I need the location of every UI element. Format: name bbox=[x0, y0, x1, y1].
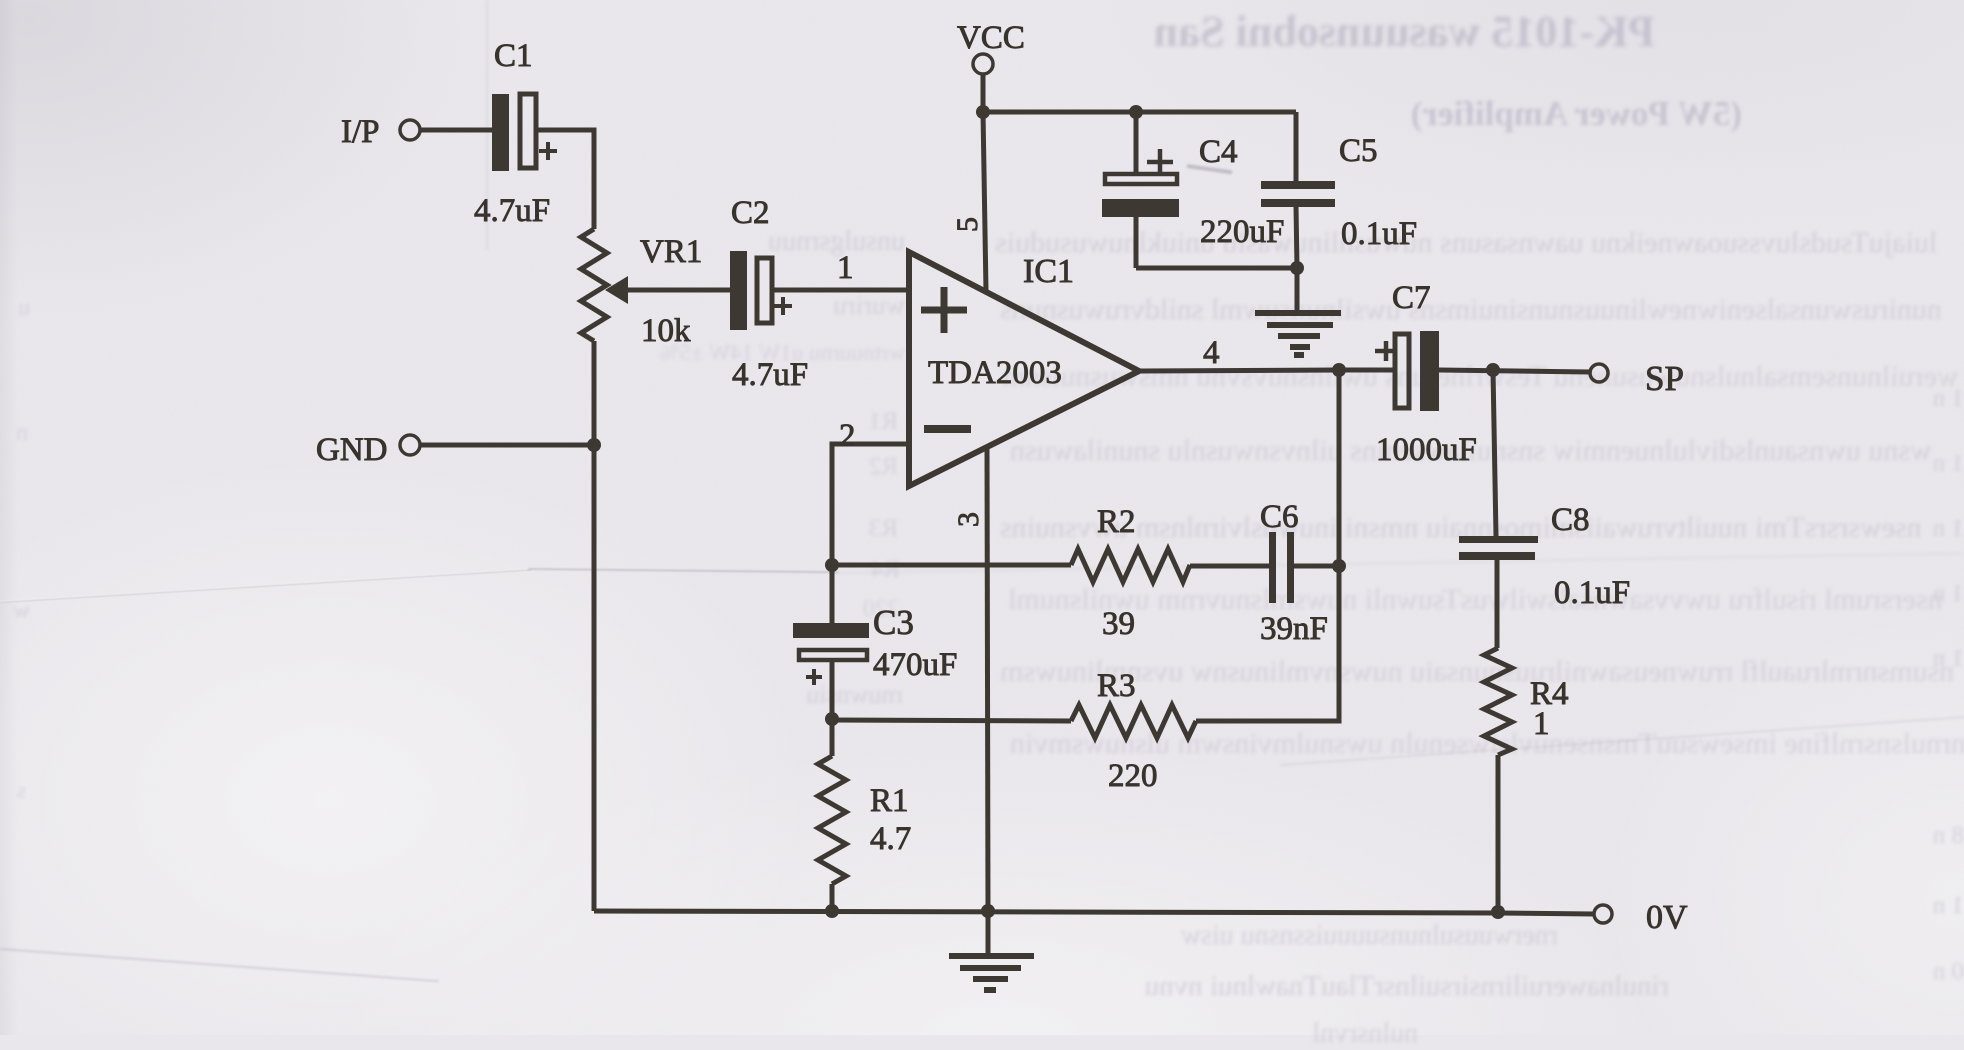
potentiometer VR1 bbox=[581, 229, 607, 341]
resistor R4 bbox=[1484, 648, 1512, 755]
junction C5 bottom bbox=[1290, 261, 1304, 275]
crease bottom left bbox=[0, 948, 439, 982]
wire C6 to output branch bbox=[1294, 564, 1339, 569]
wire to ground symbol under C5 bbox=[1295, 268, 1300, 311]
svg-text:R3: R3 bbox=[1097, 668, 1136, 704]
svg-text:IC1: IC1 bbox=[1023, 253, 1074, 290]
svg-text:VCC: VCC bbox=[957, 20, 1025, 56]
paper crease left-middle bbox=[0, 569, 531, 603]
wire GND lead bbox=[420, 443, 594, 448]
terminal GND bbox=[400, 435, 420, 455]
label C8 bbox=[1551, 502, 1590, 538]
label C1 bbox=[494, 38, 533, 74]
pin 4 bbox=[1203, 335, 1220, 371]
terminal SP bbox=[1590, 364, 1608, 382]
wire R2 to C6 bbox=[1190, 564, 1269, 569]
label R1 bbox=[870, 783, 909, 819]
svg-text:470uF: 470uF bbox=[873, 647, 957, 683]
net 0V bbox=[1646, 899, 1688, 936]
svg-text:220: 220 bbox=[1108, 758, 1158, 794]
svg-text:2: 2 bbox=[839, 418, 856, 454]
resistor R1 bbox=[818, 756, 846, 884]
junction VCC rail bbox=[976, 105, 990, 119]
svg-text:4.7uF: 4.7uF bbox=[474, 193, 550, 229]
capacitor C1 bbox=[492, 94, 557, 171]
resistor R2 bbox=[1071, 549, 1190, 582]
svg-text:1: 1 bbox=[837, 250, 854, 286]
bleed left edge bits bbox=[0, 295, 30, 322]
op-amp inverting - mark bbox=[924, 425, 971, 433]
wire pin 5 bbox=[983, 112, 986, 291]
wire VCC drop bbox=[981, 74, 986, 112]
net SP bbox=[1645, 359, 1684, 398]
pin 5 (rotated) bbox=[951, 217, 984, 232]
svg-text:220uF: 220uF bbox=[1200, 214, 1284, 250]
value 0.1uF (C5) bbox=[1341, 216, 1417, 252]
junction output / C8 branch bbox=[1486, 363, 1500, 377]
wire C4/C5 bottom rail bbox=[1136, 266, 1297, 271]
junction C6 / output branch bbox=[1332, 559, 1346, 573]
wire C7 to SP bbox=[1439, 370, 1590, 372]
wire output branch down to C8 bbox=[1493, 370, 1496, 536]
bleed left column (parts table, mirrored) bbox=[700, 226, 905, 258]
svg-text:4: 4 bbox=[1203, 335, 1220, 371]
svg-text:39nF: 39nF bbox=[1260, 611, 1328, 647]
svg-text:R1: R1 bbox=[870, 783, 909, 819]
label C2 bbox=[731, 195, 770, 231]
bleed paragraph lines, right half bbox=[995, 226, 1937, 260]
ground symbol bottom bbox=[949, 956, 1034, 990]
svg-text:C7: C7 bbox=[1392, 280, 1431, 316]
bleed bottom lines bbox=[993, 920, 1558, 952]
value 220 (R3) bbox=[1108, 758, 1158, 794]
svg-text:C2: C2 bbox=[731, 195, 770, 231]
value 1 (R4) bbox=[1533, 706, 1550, 742]
svg-text:C1: C1 bbox=[494, 38, 533, 74]
wire R3 left lead bbox=[832, 720, 1071, 721]
junction R1 bottom on ground rail bbox=[825, 904, 839, 918]
pin 3 (rotated) bbox=[952, 512, 985, 527]
wire C5 bottom stub bbox=[1296, 206, 1297, 268]
svg-text:4.7: 4.7 bbox=[870, 821, 911, 857]
small wrinkle top right bbox=[1186, 164, 1232, 174]
wire VR1 bottom down left rail bbox=[592, 341, 597, 911]
value 1000uF (C7) bbox=[1376, 432, 1477, 468]
svg-text:GND: GND bbox=[316, 432, 388, 468]
svg-text:3: 3 bbox=[952, 512, 985, 527]
wire C5 top stub bbox=[1294, 112, 1299, 181]
wire top supply rail bbox=[983, 110, 1296, 115]
net VCC bbox=[957, 20, 1025, 56]
capacitor C5 bbox=[1261, 181, 1335, 207]
bleed right edge column bbox=[1924, 385, 1964, 413]
wire I/P lead to C1 bbox=[420, 128, 492, 133]
capacitor C6 bbox=[1269, 532, 1294, 603]
label C3 bbox=[873, 603, 914, 642]
wire feedback node to C3 bbox=[830, 565, 835, 624]
svg-text:5: 5 bbox=[951, 217, 984, 232]
wire R1 bottom to ground rail bbox=[830, 884, 835, 911]
junction feedback node pin2/R2 bbox=[825, 558, 839, 572]
label C6 bbox=[1260, 499, 1299, 535]
svg-text:0.1uF: 0.1uF bbox=[1554, 575, 1630, 611]
junction C4 top bbox=[1129, 105, 1143, 119]
svg-text:1000uF: 1000uF bbox=[1376, 432, 1477, 468]
label VR1 bbox=[640, 234, 702, 270]
svg-text:10k: 10k bbox=[641, 313, 691, 349]
label R4 bbox=[1530, 676, 1569, 712]
value 4.7uF (C1) bbox=[474, 193, 550, 229]
label C4 bbox=[1199, 134, 1238, 170]
faint vertical fold top-left bbox=[486, 0, 488, 250]
wire C1 to top of VR1 bbox=[538, 130, 594, 229]
terminal VCC bbox=[973, 54, 993, 74]
capacitor C4 bbox=[1102, 149, 1179, 217]
svg-text:0.1uF: 0.1uF bbox=[1341, 216, 1417, 252]
wire C4 bottom stub bbox=[1134, 216, 1139, 268]
pin 2 bbox=[839, 418, 856, 454]
label C5 bbox=[1339, 133, 1378, 169]
value 10k (VR1) bbox=[641, 313, 691, 349]
svg-text:0V: 0V bbox=[1646, 899, 1688, 936]
wire C4 top stub bbox=[1134, 112, 1139, 174]
wire pin 4 output to C7 bbox=[1139, 370, 1395, 371]
label R2 bbox=[1097, 504, 1136, 540]
label GND bbox=[316, 432, 388, 468]
svg-text:I/P: I/P bbox=[341, 114, 380, 150]
wire pin 2 to feedback node bbox=[832, 444, 909, 565]
op-amp non-inverting + mark bbox=[921, 287, 967, 333]
bleed-through header line 2 (mirrored) bbox=[1316, 94, 1742, 134]
junction output / feedback branch bbox=[1332, 363, 1346, 377]
svg-text:C6: C6 bbox=[1260, 499, 1299, 535]
pin 1 bbox=[837, 250, 854, 286]
label TDA2003 bbox=[928, 355, 1062, 391]
svg-text:VR1: VR1 bbox=[640, 234, 702, 270]
svg-text:TDA2003: TDA2003 bbox=[928, 355, 1062, 391]
terminal I/P bbox=[400, 120, 420, 140]
label I/P bbox=[341, 114, 380, 150]
svg-text:C4: C4 bbox=[1199, 134, 1238, 170]
value 4.7uF (C2) bbox=[732, 357, 808, 393]
value 470uF (C3) bbox=[873, 647, 957, 683]
ground symbol under C5 bbox=[1255, 313, 1341, 355]
svg-text:C8: C8 bbox=[1551, 502, 1590, 538]
wire R3 right lead up to output bbox=[1196, 370, 1339, 721]
junction R4 bottom on ground rail bbox=[1491, 905, 1505, 919]
value 39 (R2) bbox=[1102, 606, 1135, 642]
wire R2 left lead bbox=[832, 563, 1071, 568]
value 39nF (C6) bbox=[1260, 611, 1328, 647]
wire bottom ground rail bbox=[594, 911, 1594, 914]
wire ground-rail stub to bottom ground symbol bbox=[986, 911, 991, 953]
label C7 bbox=[1392, 280, 1431, 316]
wire C2 to pin 1 bbox=[774, 288, 909, 293]
op-amp IC1 TDA2003 triangle bbox=[909, 252, 1139, 486]
capacitor C3 bbox=[793, 623, 869, 685]
left column faint values behind schematic labels bbox=[830, 595, 900, 623]
value 220uF (C4) bbox=[1200, 214, 1284, 250]
svg-text:R2: R2 bbox=[1097, 504, 1136, 540]
svg-text:SP: SP bbox=[1645, 359, 1684, 398]
wire R3 node to R1 top bbox=[830, 719, 835, 756]
capacitor C7 bbox=[1375, 331, 1439, 411]
value 4.7 (R1) bbox=[870, 821, 911, 857]
terminal 0V bbox=[1594, 905, 1612, 923]
label R3 bbox=[1097, 668, 1136, 704]
crease bottom right bbox=[1280, 715, 1964, 766]
wire VR1 wiper to C2 bbox=[624, 288, 730, 293]
svg-text:C5: C5 bbox=[1339, 133, 1378, 169]
svg-text:4.7uF: 4.7uF bbox=[732, 357, 808, 393]
wire pin 3 down to ground rail bbox=[987, 449, 988, 911]
capacitor C2 bbox=[730, 251, 792, 330]
bleed-through header line 1 (mirrored, reverse side) bbox=[1245, 6, 1655, 57]
label IC1 bbox=[1023, 253, 1074, 290]
junction C3/R3 node bbox=[825, 712, 839, 726]
junction GND / left rail bbox=[587, 438, 601, 452]
wire C8 to R4 bbox=[1495, 560, 1500, 648]
capacitor C8 bbox=[1459, 536, 1538, 560]
wire R4 bottom to ground rail bbox=[1496, 755, 1501, 912]
junction pin3 line on ground rail bbox=[981, 904, 995, 918]
value 0.1uF (C8) bbox=[1554, 575, 1630, 611]
svg-text:C3: C3 bbox=[873, 603, 914, 642]
svg-text:39: 39 bbox=[1102, 606, 1135, 642]
resistor R3 bbox=[1071, 705, 1196, 738]
potentiometer VR1 wiper arrow bbox=[605, 276, 628, 304]
svg-text:1: 1 bbox=[1533, 706, 1550, 742]
wire C3 to R3 node bbox=[830, 662, 835, 719]
